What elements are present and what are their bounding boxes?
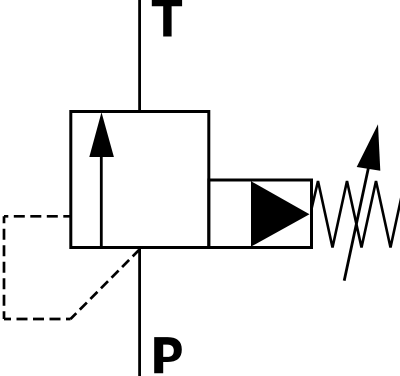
pilot dashed line bottom segment (4, 318, 71, 321)
flow arrow shaft (100, 155, 103, 248)
pilot dashed line left segment (3, 216, 6, 319)
valve body box (71, 112, 209, 248)
port label T (152, 0, 182, 37)
spring (312, 178, 400, 248)
pilot dashed line top segment (4, 215, 70, 218)
wire T port line (138, 0, 141, 112)
pilot dashed line diagonal segment (71, 250, 140, 319)
wire P port line (138, 248, 141, 376)
port label P (154, 337, 182, 373)
flow arrowhead (89, 112, 114, 157)
adjustment arrowhead (357, 124, 381, 171)
solenoid box (209, 180, 312, 248)
solenoid triangle (251, 181, 310, 246)
adjustment arrow shaft (344, 168, 368, 281)
